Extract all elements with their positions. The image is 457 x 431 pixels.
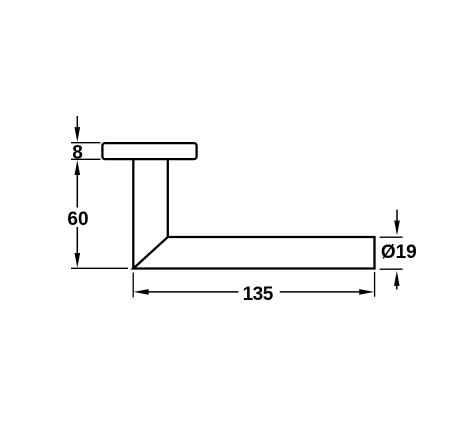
extension line below lever right corner (dim 135): [374, 272, 376, 297]
svg-text:60: 60: [67, 209, 88, 230]
extension line at rosette top (dim 8): [71, 142, 101, 144]
dim 19 arrow from above (pointing down): [396, 210, 398, 223]
extension line at rosette bottom (dim 8 / 60): [71, 158, 101, 160]
svg-text:135: 135: [243, 284, 274, 305]
svg-text:8: 8: [72, 143, 83, 164]
dim 19 arrow from below (pointing up): [394, 271, 400, 286]
dim 60 line upper segment with up arrow: [75, 160, 81, 175]
rosette (handle rose cap, top view): [102, 143, 196, 159]
neck left edge: [132, 160, 134, 269]
dim 60 line lower segment with down arrow: [76, 227, 78, 255]
lever grip outline: [133, 237, 374, 269]
svg-text:Ø19: Ø19: [381, 242, 417, 263]
extension line below lever left corner (dim 135): [132, 273, 134, 298]
dim 135 line left segment with left arrow: [134, 289, 149, 295]
dim 8 arrow from above (pointing down): [76, 116, 78, 130]
extension line at lever top right (dim 19): [380, 236, 403, 238]
extension line at lever bottom right (dim 19): [380, 268, 403, 270]
dim 135 line right segment with right arrow: [280, 291, 362, 293]
extension line at lever bottom (dim 60): [71, 267, 128, 269]
neck right edge: [167, 160, 169, 238]
